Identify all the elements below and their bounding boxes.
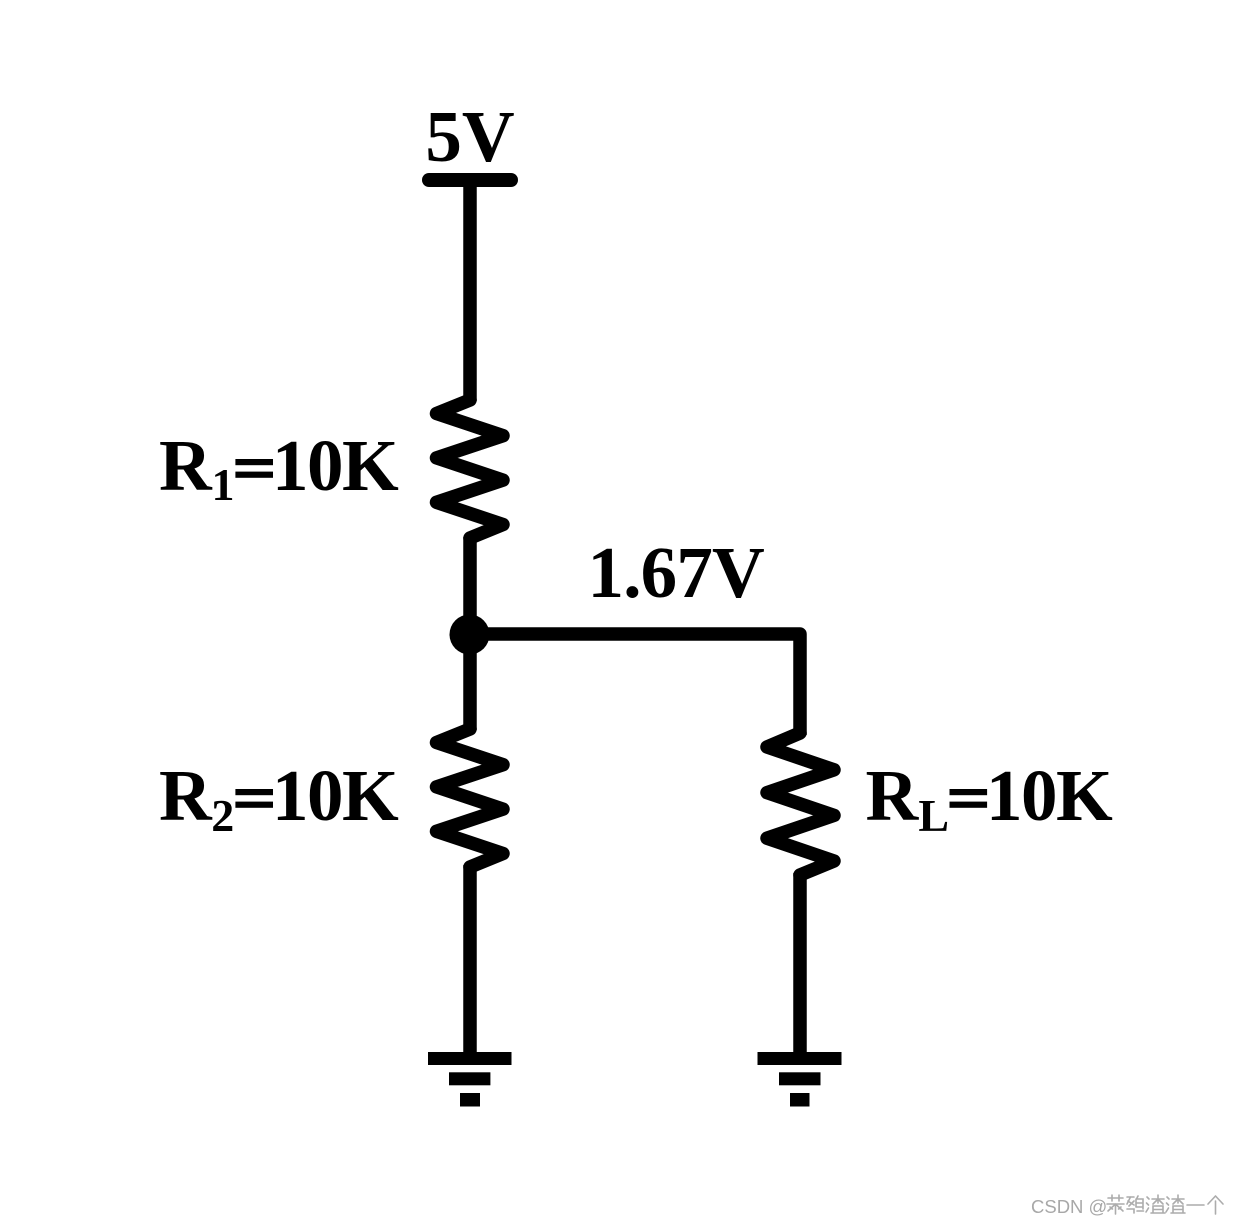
svg-text:5V: 5V xyxy=(425,96,514,177)
svg-text:L: L xyxy=(918,790,949,841)
svg-text:1.67V: 1.67V xyxy=(588,532,765,613)
svg-text:R: R xyxy=(866,755,920,836)
label RL=10K xyxy=(866,755,1114,841)
svg-text:R: R xyxy=(159,755,213,836)
wire R2 to ground xyxy=(463,865,477,1053)
wire node to R2 xyxy=(463,629,477,730)
resistor RL xyxy=(767,733,834,875)
node junction dot xyxy=(450,615,490,655)
power supply 5V bar xyxy=(429,173,511,187)
ground left xyxy=(428,1052,512,1107)
ground right xyxy=(758,1052,842,1107)
wire R1 to node xyxy=(463,537,477,640)
label R2=10K xyxy=(159,755,399,841)
svg-text:10K: 10K xyxy=(272,755,399,836)
resistor R2 xyxy=(437,729,504,867)
wire node to RL corner xyxy=(470,634,801,735)
svg-text:2: 2 xyxy=(211,790,234,841)
label R1=10K xyxy=(159,425,399,510)
char ji xyxy=(1127,1196,1144,1213)
char ge xyxy=(1208,1196,1223,1214)
wire supply to R1 xyxy=(463,180,477,401)
char zha xyxy=(1146,1195,1165,1213)
svg-text:10K: 10K xyxy=(272,425,399,506)
svg-text:1: 1 xyxy=(212,459,235,510)
watermark chinese glyphs xyxy=(1107,1195,1223,1214)
char yi xyxy=(1187,1204,1204,1206)
svg-text:CSDN @: CSDN @ xyxy=(1031,1196,1107,1217)
char zha2 xyxy=(1166,1195,1185,1213)
svg-text:10K: 10K xyxy=(986,755,1113,836)
char cai xyxy=(1107,1195,1124,1214)
wire RL to ground xyxy=(793,873,807,1053)
resistor R1 xyxy=(437,400,504,538)
svg-text:R: R xyxy=(159,425,213,506)
